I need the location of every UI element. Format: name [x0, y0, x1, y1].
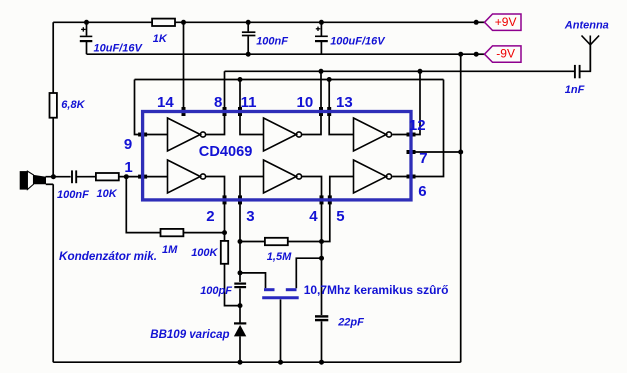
capacitor C5 100nF mic coupling	[72, 170, 76, 183]
wire inverter4 output pin2 drop to 100K	[206, 177, 240, 306]
wire pin4 net below 22pF to bottom rail	[321, 321, 323, 362]
wire ceramic filter bottom terminal	[280, 299, 282, 362]
inverter gate 4 (pins 1-2)	[168, 160, 201, 193]
svg-text:100K: 100K	[191, 247, 218, 259]
svg-text:100nF: 100nF	[256, 36, 288, 48]
wire C1 top stub	[86, 22, 88, 35]
svg-text:Kondenzátor mik.: Kondenzátor mik.	[59, 250, 157, 263]
svg-text:-9V: -9V	[496, 47, 515, 61]
capacitor C3 100uF/16V electrolytic	[315, 27, 328, 43]
wire pin7 stub to -9V drop	[411, 151, 461, 153]
wire antenna line right of 1nF	[580, 45, 590, 72]
wire -9V rail	[87, 53, 478, 55]
wire pin9 riser and input inverter1	[135, 80, 168, 135]
microphone (electret capsule)	[20, 171, 46, 190]
wire varicap to bottom rail	[239, 336, 241, 362]
svg-text:10: 10	[297, 94, 314, 111]
capacitor C2 100nF	[242, 32, 256, 35]
wire pin1 to R 1M branch	[126, 177, 224, 233]
inverter gate 5 (pins 3-4)	[264, 160, 297, 193]
svg-text:7: 7	[419, 150, 427, 167]
wire ceramic filter left terminal	[240, 273, 266, 288]
wire C3 top stub	[320, 22, 322, 35]
capacitor C4 1nF antenna coupling	[575, 65, 580, 78]
inverter gate 1 (pins 9-8)	[168, 118, 201, 151]
svg-text:9: 9	[124, 136, 132, 153]
svg-text:2: 2	[206, 208, 214, 225]
svg-text:10K: 10K	[97, 188, 118, 200]
wire +9V flag stub	[477, 21, 485, 23]
svg-text:4: 4	[309, 208, 318, 225]
wire C3 bottom stub	[320, 42, 322, 54]
svg-text:+9V: +9V	[495, 15, 517, 29]
svg-text:Antenna: Antenna	[564, 19, 609, 31]
svg-text:100pF: 100pF	[200, 285, 232, 297]
svg-text:1nF: 1nF	[565, 84, 585, 96]
svg-text:22pF: 22pF	[337, 316, 364, 328]
wire C2 top stub	[247, 22, 249, 31]
wire left border vertical lower (from mic return)	[52, 184, 54, 362]
wire pin13 drop and input inverter3	[329, 80, 353, 135]
inverter gate 2 (pins 11-10)	[264, 118, 297, 151]
wire pin3 net below 100pF to varicap	[239, 288, 241, 322]
svg-text:3: 3	[246, 208, 254, 225]
wire mic return to left border	[46, 183, 53, 185]
svg-text:13: 13	[336, 94, 353, 111]
svg-text:10,7Mhz keramikus szûrő: 10,7Mhz keramikus szûrő	[304, 283, 449, 297]
wire left border vertical upper (to mic junction)	[52, 22, 54, 176]
wire pin5 jog (inverter6 input)	[322, 177, 354, 242]
svg-text:CD4069: CD4069	[199, 144, 253, 160]
wire inverter3 output to pin12	[392, 134, 411, 136]
wire ceramic filter right terminal	[296, 258, 321, 288]
wire antenna line y=71.3	[225, 70, 575, 72]
IC box U1 CD4069	[143, 112, 411, 200]
ceramic filter 10.7MHz (blue symbol)	[262, 290, 299, 298]
svg-text:11: 11	[241, 94, 257, 111]
resistor R3 10K	[96, 173, 119, 180]
pin terminal ticks at IC box border crossings	[138, 107, 415, 204]
inverter gate 3 (pins 13-12)	[354, 118, 387, 151]
power flag +9V	[485, 14, 522, 30]
wire coupling cap to pin1 and inverter4 input	[77, 176, 168, 178]
svg-text:6: 6	[418, 183, 426, 200]
wire +9V rail	[53, 21, 477, 23]
capacitor C6 100pF	[234, 284, 246, 288]
svg-text:1,5M: 1,5M	[267, 251, 292, 263]
wire pin8 net: inverter1 output riser to antenna line	[206, 71, 225, 134]
wire 1.5M resistor row	[240, 241, 322, 243]
wire feedback line y=79.5 pins 9-11-13-6	[135, 79, 444, 81]
svg-text:1: 1	[124, 159, 132, 176]
resistor R5 100K	[221, 241, 228, 264]
resistor R4 1M	[161, 229, 184, 236]
wire pin6 outside riser to feedback line	[411, 80, 444, 177]
resistor R1 1K	[152, 19, 175, 26]
wire pin11 drop and input inverter2	[240, 80, 264, 135]
svg-text:5: 5	[336, 208, 344, 225]
svg-text:10uF/16V: 10uF/16V	[94, 42, 144, 54]
wire mic to coupling cap	[46, 176, 71, 178]
wire C2 bottom stub	[247, 36, 249, 54]
svg-text:6,8K: 6,8K	[61, 99, 85, 111]
inverter gate 6 (pins 5-6)	[354, 160, 387, 193]
svg-text:14: 14	[157, 94, 174, 111]
wire -9V flag stub	[477, 53, 485, 55]
svg-text:12: 12	[409, 117, 426, 134]
svg-text:100uF/16V: 100uF/16V	[330, 35, 386, 47]
capacitor C7 22pF	[315, 316, 328, 320]
resistor R2 6,8K	[50, 93, 57, 118]
antenna symbol	[582, 36, 600, 72]
capacitor C1 10uF/16V electrolytic	[80, 27, 93, 42]
svg-text:1K: 1K	[153, 33, 168, 45]
wire pin14 drop from +9V rail	[183, 22, 185, 113]
wire pin12 outside riser to antenna line	[411, 71, 420, 134]
svg-text:1M: 1M	[162, 244, 178, 256]
wire right border vertical (-9V drop to pin7 and bottom)	[460, 54, 462, 362]
wire C1 bottom stub	[86, 42, 88, 54]
svg-text:100nF: 100nF	[57, 189, 89, 201]
wire pin4 net vertical (inverter5 output)	[302, 177, 322, 316]
varicap diode D1 BB109	[234, 323, 246, 336]
resistor R6 1,5M	[265, 238, 288, 245]
wire pin10 net: inverter2 output riser	[302, 71, 321, 134]
svg-text:BB109 varicap: BB109 varicap	[150, 329, 229, 341]
wire pin3 net vertical (inverter5 input)	[240, 177, 264, 282]
power flag -9V	[485, 46, 522, 62]
svg-text:8: 8	[214, 94, 222, 111]
wire bottom rail	[53, 361, 461, 363]
wire inverter6 output to pin6	[392, 176, 411, 178]
